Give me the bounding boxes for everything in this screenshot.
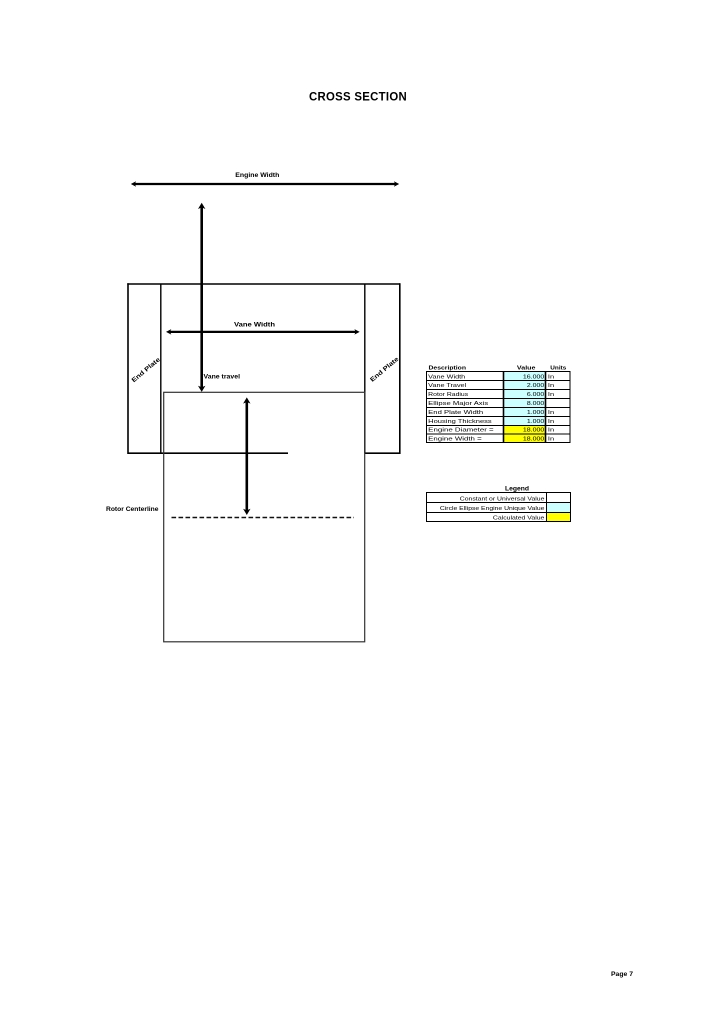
vane width dimension arrow: [166, 329, 360, 335]
svg-text:Ellipse Major Axis: Ellipse Major Axis: [428, 401, 488, 407]
svg-text:16.000: 16.000: [523, 374, 544, 380]
rotor centerline dashed: [172, 517, 355, 519]
svg-text:Calculated Value: Calculated Value: [493, 516, 545, 522]
legend rows text: [440, 496, 545, 521]
svg-text:Value: Value: [517, 365, 536, 371]
svg-text:Rotor Radius: Rotor Radius: [428, 392, 468, 398]
data table column fills: [504, 372, 545, 442]
svg-text:Description: Description: [429, 365, 467, 371]
svg-text:In: In: [548, 392, 554, 398]
data table rows text: [428, 374, 554, 442]
svg-text:Legend: Legend: [505, 485, 529, 492]
end plate divider right: [364, 284, 366, 453]
svg-text:Circle Ellipse Engine Unique V: Circle Ellipse Engine Unique Value: [440, 506, 545, 512]
svg-text:In: In: [548, 383, 554, 389]
svg-text:Vane travel: Vane travel: [204, 373, 241, 380]
svg-text:Units: Units: [550, 365, 566, 371]
svg-text:In: In: [548, 437, 554, 443]
svg-text:In: In: [548, 419, 554, 425]
svg-text:18.000: 18.000: [523, 428, 544, 434]
svg-text:1.000: 1.000: [527, 419, 544, 425]
svg-text:In: In: [548, 428, 554, 434]
svg-text:Vane Width: Vane Width: [234, 322, 275, 329]
housing outline: [127, 283, 400, 454]
end plate divider left: [160, 284, 162, 453]
data table grid: [426, 371, 571, 443]
svg-text:Engine Width =: Engine Width =: [428, 437, 482, 443]
svg-text:Vane Travel: Vane Travel: [428, 383, 466, 389]
legend grid: [426, 493, 571, 522]
data table header: [429, 365, 567, 371]
vane rectangle: [164, 392, 365, 642]
svg-text:2.000: 2.000: [527, 383, 544, 389]
svg-text:1.000: 1.000: [527, 410, 544, 416]
svg-text:Housing Thickness: Housing Thickness: [428, 419, 492, 425]
svg-text:In: In: [548, 374, 554, 380]
svg-text:Engine Width: Engine Width: [235, 172, 279, 179]
svg-text:6.000: 6.000: [527, 392, 544, 398]
engine width dimension arrow: [131, 181, 399, 187]
svg-text:Engine Diameter =: Engine Diameter =: [428, 428, 494, 434]
svg-text:Vane Width: Vane Width: [428, 374, 465, 380]
svg-text:Constant or Universal Value: Constant or Universal Value: [460, 496, 545, 502]
vane travel vertical arrow (tall): [198, 203, 205, 392]
svg-text:CROSS SECTION: CROSS SECTION: [309, 91, 407, 103]
svg-text:18.000: 18.000: [523, 437, 544, 443]
svg-text:Rotor Centerline: Rotor Centerline: [106, 506, 159, 513]
svg-text:8.000: 8.000: [527, 401, 544, 407]
svg-text:End Plate Width: End Plate Width: [428, 410, 483, 416]
rotor radius vertical arrow: [243, 397, 250, 515]
svg-text:In: In: [548, 410, 554, 416]
svg-text:Page 7: Page 7: [611, 971, 633, 978]
legend swatch fills: [547, 503, 570, 512]
